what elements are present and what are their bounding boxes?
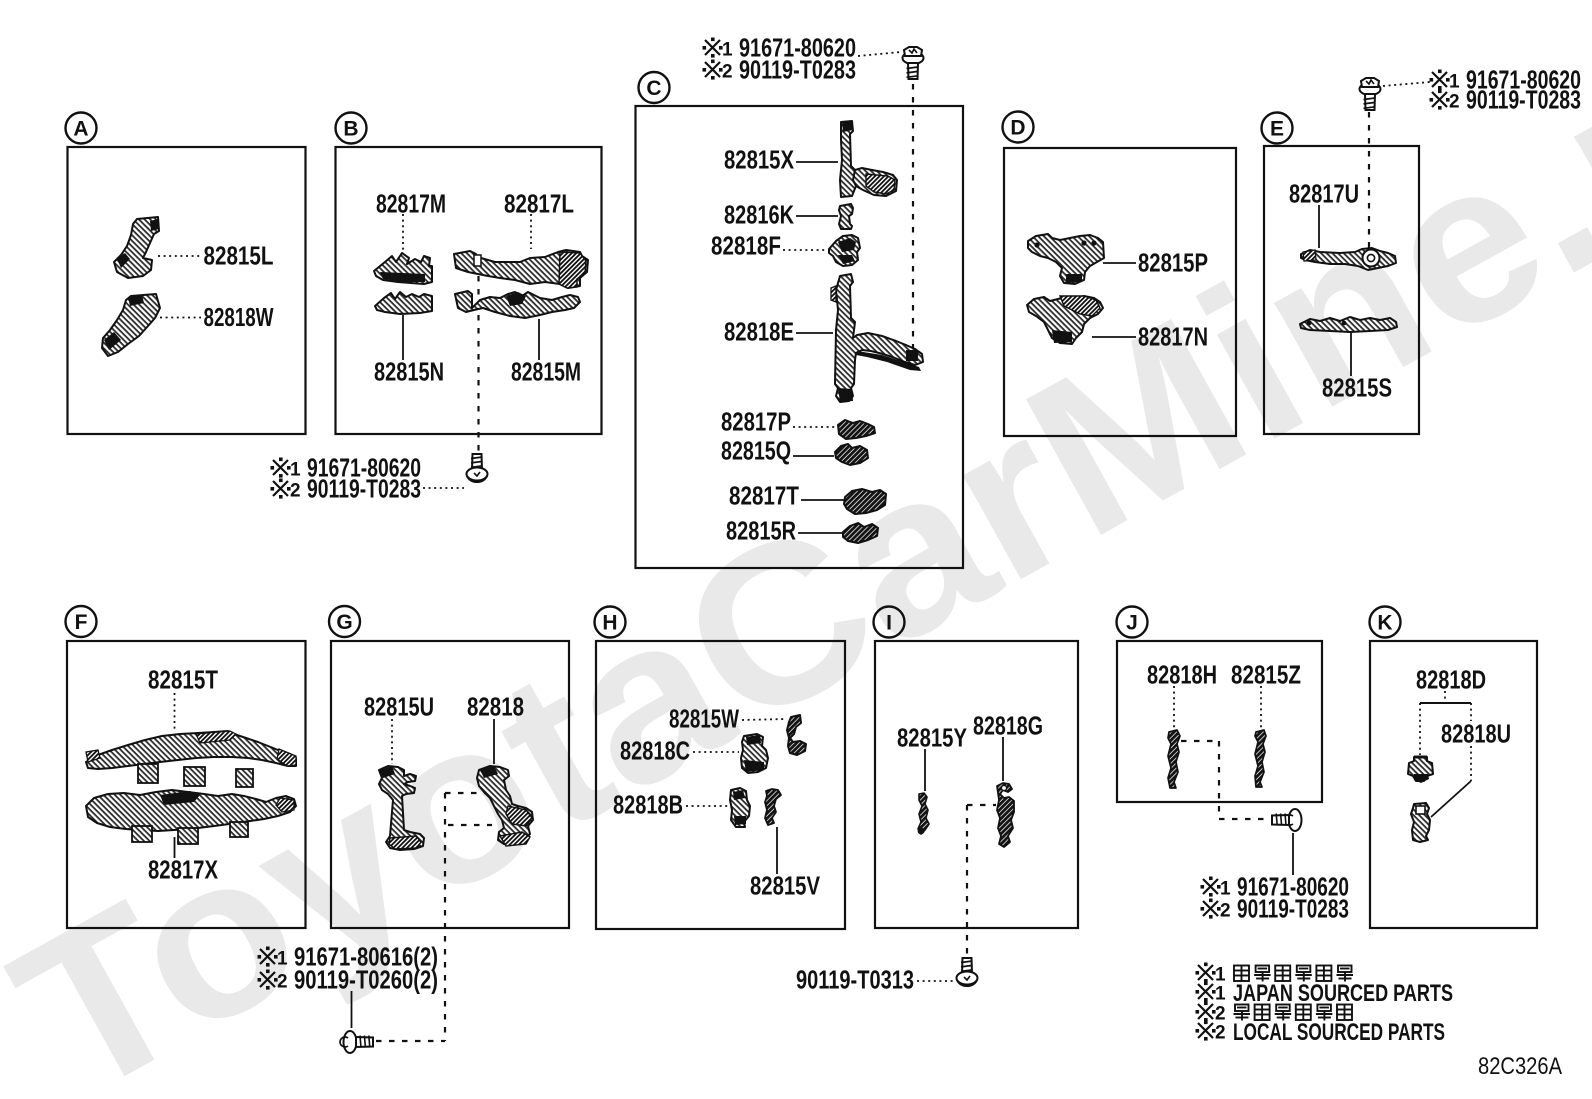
svg-text:82815L: 82815L	[204, 243, 274, 271]
svg-text:82818F: 82818F	[711, 233, 781, 261]
part 82815M	[455, 291, 580, 318]
svg-text:82815Q: 82815Q	[721, 438, 791, 466]
screw 91671-80620 above box C	[903, 47, 924, 79]
assembly dashed vertical I	[966, 805, 968, 956]
leader 82815P	[1103, 262, 1136, 264]
part 82815V	[765, 789, 781, 825]
part 82818C	[741, 734, 768, 773]
box D label circle	[1003, 112, 1034, 143]
assembly dashed horizontal J1	[1181, 740, 1219, 742]
legend note ※1 JAPAN SOURCED PARTS	[1196, 982, 1216, 1002]
svg-text:82815Y: 82815Y	[897, 725, 967, 753]
svg-text:82818W: 82818W	[204, 304, 275, 332]
leader 82817X	[174, 837, 176, 858]
svg-text:82815V: 82815V	[750, 873, 820, 901]
leader 82815Y	[924, 749, 926, 791]
leader 82815Q	[793, 455, 834, 457]
svg-text:82818U: 82818U	[1441, 721, 1511, 749]
leader 82817P	[793, 426, 837, 428]
svg-text:82815X: 82815X	[724, 147, 794, 175]
assembly dashed line C	[912, 84, 914, 350]
assembly dashed horizontal G2	[448, 824, 492, 826]
assembly dashed vertical J	[1218, 741, 1220, 819]
part 82818B	[730, 788, 750, 827]
part 82817N	[1027, 296, 1103, 344]
leader 82818H	[1173, 686, 1175, 729]
part 82818	[477, 766, 533, 844]
box F label circle	[66, 606, 97, 637]
part 82815T	[86, 731, 296, 769]
assembly dashed horizontal J2	[1219, 818, 1268, 820]
svg-text:2: 2	[1215, 1023, 1226, 1044]
box D frame	[1004, 148, 1236, 436]
screw 91671-80620 below box B	[467, 454, 488, 482]
svg-text:2: 2	[1215, 1004, 1226, 1025]
svg-text:1: 1	[1215, 984, 1226, 1005]
box K label circle	[1370, 607, 1401, 638]
part 82817X	[86, 790, 296, 831]
svg-text:1: 1	[277, 949, 288, 970]
legend note ※2 Local sourced parts (Japanese)	[1196, 1002, 1216, 1022]
svg-text:1: 1	[722, 40, 733, 61]
svg-text:H: H	[602, 612, 617, 635]
screw 90119-T0313 below box I	[957, 958, 978, 986]
svg-text:2: 2	[290, 481, 301, 502]
svg-text:C: C	[646, 77, 661, 100]
leader to screw I	[917, 980, 955, 982]
part 82815S	[1300, 317, 1397, 332]
svg-text:82818B: 82818B	[613, 792, 683, 820]
leader 82817T	[801, 499, 844, 501]
part 82817L	[454, 250, 588, 288]
leader 82818B	[686, 805, 728, 807]
note 91671-80620 under J	[1201, 877, 1221, 897]
part 82817U	[1301, 248, 1396, 270]
part 82818U grommet	[1411, 803, 1430, 842]
legend note ※1 Japan sourced parts (Japanese)	[1196, 963, 1216, 983]
svg-text:2: 2	[1220, 901, 1231, 922]
leader 82815L	[158, 255, 201, 257]
screw 91671-80616 below box G	[340, 1031, 373, 1053]
assembly dashed line E	[1368, 112, 1370, 256]
leader 82818	[493, 719, 495, 764]
svg-text:2: 2	[277, 972, 288, 993]
leader 82815T	[174, 693, 176, 732]
leader to screw G	[351, 991, 353, 1028]
svg-text:90119-T0283: 90119-T0283	[307, 476, 421, 504]
part 82818E	[835, 274, 923, 402]
box A label circle	[66, 113, 97, 144]
assembly dashed horizontal I	[967, 804, 996, 806]
svg-text:82817N: 82817N	[1138, 324, 1208, 352]
part 82818H	[1168, 730, 1180, 788]
leader 82818G	[1002, 737, 1004, 781]
svg-text:E: E	[1270, 118, 1284, 141]
svg-text:82817M: 82817M	[376, 191, 446, 219]
leader 82815R	[798, 532, 843, 534]
leader 82815M	[538, 319, 540, 360]
svg-text:82817L: 82817L	[504, 191, 574, 219]
svg-text:B: B	[343, 118, 358, 141]
leader 82817U	[1318, 205, 1320, 248]
box F frame	[67, 641, 306, 928]
leader 82815Z	[1260, 686, 1262, 729]
leader 82818F	[783, 249, 827, 251]
part 82815R	[843, 523, 878, 543]
leader 82818D right drop	[1470, 703, 1472, 721]
svg-text:82815W: 82815W	[669, 706, 740, 734]
leader 82815U	[391, 719, 393, 764]
box B label circle	[336, 113, 367, 144]
screw 91671-80620 right of box J	[1272, 809, 1302, 831]
svg-text:82815S: 82815S	[1322, 375, 1392, 403]
svg-text:82815N: 82815N	[374, 359, 444, 387]
leader 82818D stub	[1444, 691, 1446, 702]
part 82818F	[829, 235, 860, 266]
part 82815L	[114, 217, 159, 278]
svg-text:90119-T0283: 90119-T0283	[1466, 87, 1581, 115]
part 82815N	[375, 292, 432, 314]
leader 82818D bar	[1420, 702, 1471, 704]
svg-text:82815Z: 82815Z	[1231, 662, 1301, 690]
leader to screw J	[1292, 833, 1294, 875]
assembly dashed horizontal G1	[445, 792, 491, 794]
svg-text:2: 2	[722, 62, 733, 83]
leader 82818E	[796, 332, 833, 334]
svg-text:90119-T0313: 90119-T0313	[796, 967, 914, 995]
box G label circle	[329, 606, 360, 637]
assembly dashed line B	[477, 263, 479, 452]
leader 82816K	[796, 215, 838, 217]
part 82815X	[840, 121, 897, 197]
svg-text:K: K	[1377, 612, 1392, 635]
svg-text:LOCAL SOURCED PARTS: LOCAL SOURCED PARTS	[1233, 1019, 1445, 1046]
svg-text:1: 1	[290, 460, 301, 481]
leader to screw C	[858, 52, 901, 56]
part 82817M	[374, 253, 432, 284]
leader 82817L	[530, 214, 532, 249]
svg-text:D: D	[1010, 117, 1025, 140]
leader 82818U diagonal	[1431, 781, 1471, 817]
note 91671-80620 above C	[703, 38, 723, 58]
part 82815Q	[835, 444, 868, 465]
box B frame	[336, 147, 602, 434]
box J frame	[1117, 641, 1322, 802]
part 82818D grommet	[1408, 757, 1433, 781]
part 82816K	[839, 204, 853, 229]
leader 82815X	[796, 161, 838, 163]
leader to screw B	[423, 487, 464, 489]
part 82818W	[102, 294, 160, 356]
part 82815Z	[1255, 730, 1266, 787]
svg-text:90119-T0283: 90119-T0283	[739, 57, 856, 85]
legend note ※2 LOCAL SOURCED PARTS	[1196, 1021, 1216, 1041]
box A frame	[68, 147, 306, 434]
assembly dashed vertical G	[444, 793, 446, 1041]
leader to screw E	[1383, 82, 1430, 86]
svg-text:82818C: 82818C	[620, 738, 690, 766]
svg-text:82815R: 82815R	[726, 518, 796, 546]
svg-text:90119-T0283: 90119-T0283	[1237, 896, 1349, 924]
leader 82817N	[1092, 336, 1136, 338]
svg-text:82818D: 82818D	[1416, 667, 1486, 695]
box C frame	[636, 106, 964, 568]
leader 82815N	[402, 315, 404, 360]
assembly dashed horizontal G3	[376, 1040, 445, 1042]
screw 91671-80620 above box E	[1360, 78, 1381, 110]
box I label circle	[874, 607, 905, 638]
svg-text:82817T: 82817T	[729, 483, 799, 511]
box G frame	[331, 641, 569, 928]
box C label circle	[639, 72, 670, 103]
svg-text:1: 1	[1449, 72, 1460, 93]
part 82817T	[844, 489, 886, 514]
leader 82818C	[693, 751, 739, 753]
leader 82818W	[160, 317, 201, 319]
leader 82818U drop	[1470, 746, 1472, 781]
box I frame	[875, 641, 1078, 928]
svg-text:82815U: 82815U	[364, 694, 434, 722]
svg-text:82815T: 82815T	[148, 667, 218, 695]
part 82818G	[997, 783, 1014, 847]
svg-text:JAPAN SOURCED PARTS: JAPAN SOURCED PARTS	[1233, 980, 1453, 1007]
svg-text:82818G: 82818G	[973, 713, 1043, 741]
box K frame	[1370, 641, 1537, 928]
part 82815W	[787, 715, 806, 755]
box H label circle	[595, 607, 626, 638]
svg-text:82816K: 82816K	[724, 202, 794, 230]
svg-text:F: F	[75, 611, 88, 634]
note 91671-80620 under B	[271, 458, 291, 478]
note 91671-80620 above E	[1430, 70, 1450, 90]
svg-text:90119-T0260(2): 90119-T0260(2)	[294, 967, 438, 995]
svg-text:82815P: 82815P	[1138, 250, 1208, 278]
leader 82817M	[402, 214, 404, 251]
box E frame	[1264, 146, 1419, 434]
svg-text:J: J	[1126, 612, 1138, 635]
box J label circle	[1117, 607, 1148, 638]
svg-text:82817P: 82817P	[721, 409, 791, 437]
svg-text:82817X: 82817X	[148, 857, 218, 885]
note 91671-80616 under G	[258, 947, 278, 967]
svg-text:82818: 82818	[467, 694, 524, 722]
part 82815U	[379, 766, 424, 850]
svg-text:1: 1	[1215, 965, 1226, 986]
svg-text:I: I	[886, 612, 892, 635]
leader 82815S	[1350, 333, 1352, 376]
svg-text:82818E: 82818E	[724, 319, 794, 347]
leader 82815V	[776, 827, 778, 874]
part 82815Y	[918, 793, 929, 834]
leader 82815W	[742, 719, 786, 720]
svg-text:82818H: 82818H	[1147, 662, 1217, 690]
svg-text:82817U: 82817U	[1289, 181, 1359, 209]
box E label circle	[1262, 113, 1293, 144]
svg-text:1: 1	[1220, 879, 1231, 900]
part 82815P	[1028, 234, 1104, 284]
svg-text:2: 2	[1449, 92, 1460, 113]
leader 82818D left drop	[1419, 703, 1421, 755]
svg-text:82C326A: 82C326A	[1478, 1053, 1562, 1080]
svg-text:G: G	[336, 611, 352, 634]
part 82817P	[838, 420, 875, 439]
box H frame	[596, 641, 845, 929]
svg-text:A: A	[73, 118, 88, 141]
svg-text:82815M: 82815M	[511, 359, 581, 387]
